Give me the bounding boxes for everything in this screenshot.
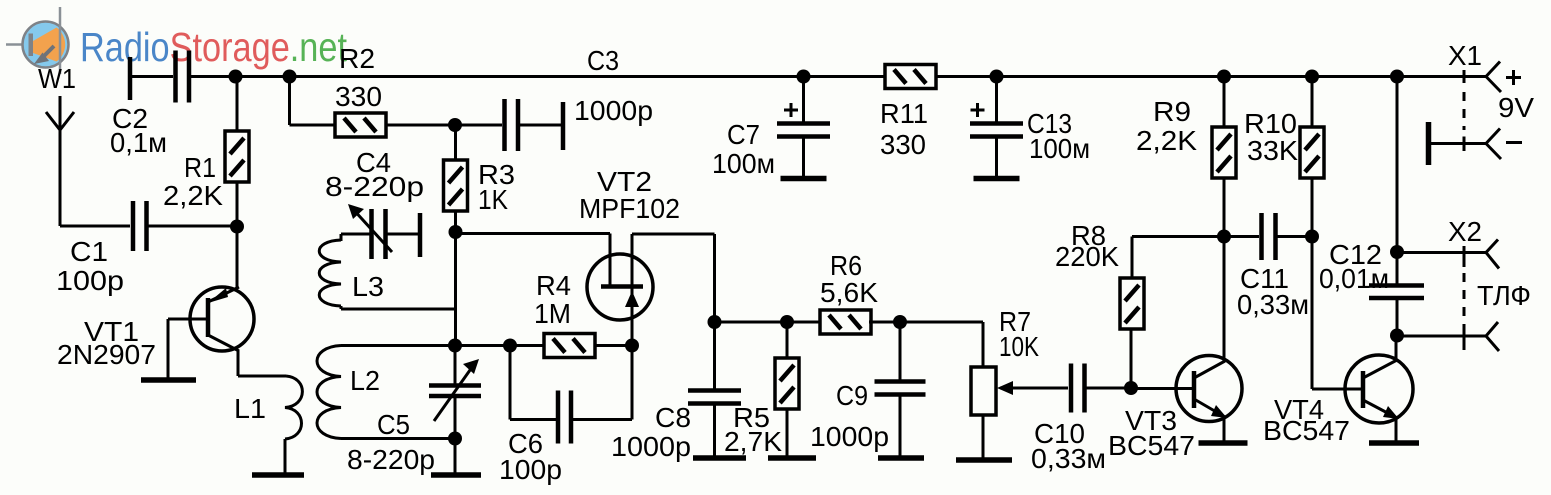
svg-text:1000p: 1000p <box>574 95 653 126</box>
svg-text:2,2K: 2,2K <box>163 180 223 211</box>
svg-text:330: 330 <box>335 81 382 112</box>
svg-text:C9: C9 <box>836 380 868 411</box>
svg-text:R4: R4 <box>536 270 571 301</box>
svg-text:0,33м: 0,33м <box>1237 289 1309 320</box>
svg-text:100м: 100м <box>712 148 775 179</box>
svg-text:5,6K: 5,6K <box>820 277 878 308</box>
svg-text:BC547: BC547 <box>1108 430 1195 461</box>
svg-text:9V: 9V <box>1498 92 1534 123</box>
svg-text:R9: R9 <box>1153 96 1191 127</box>
svg-text:220K: 220K <box>1055 241 1119 272</box>
svg-text:1K: 1K <box>478 184 508 215</box>
svg-text:C7: C7 <box>727 119 760 150</box>
svg-text:8-220p: 8-220p <box>325 171 424 202</box>
svg-text:W1: W1 <box>38 63 76 94</box>
svg-text:R1: R1 <box>184 152 216 183</box>
svg-text:2,2K: 2,2K <box>1136 125 1197 156</box>
svg-text:C5: C5 <box>377 409 410 440</box>
svg-text:C3: C3 <box>587 45 619 76</box>
svg-text:0,33м: 0,33м <box>1031 443 1106 474</box>
svg-text:C8: C8 <box>655 402 691 433</box>
svg-text:1000p: 1000p <box>810 421 889 452</box>
svg-text:33K: 33K <box>1247 135 1298 166</box>
svg-text:RadioStorage.net: RadioStorage.net <box>80 24 348 70</box>
svg-text:100p: 100p <box>56 265 124 296</box>
svg-text:330: 330 <box>880 129 926 160</box>
svg-text:X2: X2 <box>1448 216 1482 247</box>
svg-text:ТЛФ: ТЛФ <box>1477 280 1531 311</box>
svg-text:100м: 100м <box>1029 133 1090 164</box>
svg-text:2,7K: 2,7K <box>724 426 782 457</box>
svg-text:100p: 100p <box>499 454 562 485</box>
svg-text:L3: L3 <box>352 271 384 302</box>
svg-text:L1: L1 <box>234 393 266 424</box>
svg-text:0,1м: 0,1м <box>110 127 167 158</box>
svg-text:X1: X1 <box>1448 40 1482 71</box>
svg-text:C1: C1 <box>70 236 108 267</box>
svg-text:1M: 1M <box>534 298 571 329</box>
svg-text:10K: 10K <box>999 331 1039 362</box>
svg-text:R2: R2 <box>339 43 375 74</box>
svg-text:R11: R11 <box>880 98 928 129</box>
svg-text:BC547: BC547 <box>1263 415 1350 446</box>
svg-text:0,01м: 0,01м <box>1319 263 1389 294</box>
svg-text:8-220p: 8-220p <box>347 444 435 475</box>
svg-text:L2: L2 <box>350 365 380 396</box>
svg-text:MPF102: MPF102 <box>579 193 680 224</box>
svg-text:2N2907: 2N2907 <box>57 339 156 370</box>
svg-text:1000p: 1000p <box>611 431 691 462</box>
